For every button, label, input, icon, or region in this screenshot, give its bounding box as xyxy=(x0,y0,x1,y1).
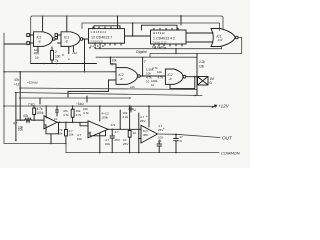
node input junction xyxy=(19,119,21,121)
node gate C out xyxy=(142,75,144,77)
node pins under IC2 xyxy=(154,47,156,49)
op-amp T2 xyxy=(88,121,108,138)
wire gate C input long xyxy=(4,71,111,73)
component x129 xyxy=(128,106,131,153)
resistor R input zigzag xyxy=(25,118,32,122)
wire gate B out drop to gate C xyxy=(84,39,86,72)
op-amp T1 xyxy=(44,116,57,129)
node bias T1 xyxy=(33,119,35,121)
wire rail +12V xyxy=(4,105,215,107)
wire second top rail xyxy=(82,23,220,31)
wire tap above gate C xyxy=(142,57,144,76)
wire left border xyxy=(4,33,219,153)
wire left box edge bottom xyxy=(31,63,97,65)
wire gate D out xyxy=(186,76,197,78)
wire gate A input from border xyxy=(4,43,27,45)
wire T1 supply xyxy=(45,106,47,118)
component hanger 7k under rail xyxy=(39,98,41,104)
wire gate C out xyxy=(140,75,165,77)
wire rail B xyxy=(15,93,202,96)
wire rail C xyxy=(19,97,130,99)
node T3 out xyxy=(175,134,177,136)
wire T2 bottom leg xyxy=(99,134,101,153)
gate D IC2-b xyxy=(165,69,185,84)
wire rail A xyxy=(20,88,197,90)
node gate D out xyxy=(194,76,196,78)
resistor chain x120 xyxy=(119,110,121,129)
node T1 feedback xyxy=(58,133,60,135)
node cap output bottom xyxy=(175,152,177,154)
wire tap IC1 xyxy=(117,16,119,29)
node mid left junctions xyxy=(43,63,45,65)
wire T3 out xyxy=(158,134,221,138)
node resistor under T1 xyxy=(65,122,67,124)
wire +12V arrow xyxy=(212,105,217,108)
node T1 supply xyxy=(45,105,47,107)
wire tap rail2 to IC wire xyxy=(132,23,134,36)
IC U2 CD4046 xyxy=(151,28,187,46)
wire T1 ground leg xyxy=(50,134,52,144)
crystal Y1 xyxy=(198,77,209,86)
wire left vertical x16 xyxy=(15,93,17,141)
wire left vertical x20 xyxy=(19,72,21,120)
wire T1 out xyxy=(57,122,88,126)
gate C IC2-a xyxy=(111,68,140,85)
capacitor T3 bypass xyxy=(157,140,161,153)
wire gate D feedback bottom xyxy=(170,77,195,89)
node T1 out xyxy=(59,122,61,124)
wire T3 supply xyxy=(148,106,150,127)
wire rail A corner xyxy=(196,90,198,96)
IC U1 CD4013 xyxy=(89,27,125,45)
wire connector x176 xyxy=(175,49,177,54)
node pins under IC1 xyxy=(89,47,91,49)
resistor bias T1 xyxy=(33,106,36,120)
node gate C input xyxy=(3,71,5,73)
wire T3 input vertical xyxy=(138,113,140,153)
wire top rail xyxy=(31,16,223,64)
wire gate A lower input drop xyxy=(37,46,39,52)
wire gate B out xyxy=(83,38,89,40)
wire tap gate A xyxy=(42,16,44,31)
wire mid rail xyxy=(96,56,197,58)
resistor under T1 right xyxy=(65,122,68,143)
component hanger 1k under rail xyxy=(86,96,88,102)
resistor R mid-left vertical xyxy=(51,47,54,64)
gate E IC1-c xyxy=(207,29,238,47)
wire tap gate B xyxy=(66,16,68,31)
wire loop above IC1 xyxy=(94,26,120,29)
wire right vertical xyxy=(196,54,198,96)
wire loop above IC2 xyxy=(142,25,178,30)
wire T2 out cap leg xyxy=(110,129,114,152)
resistor left hang x57 xyxy=(56,106,59,116)
wire gate C lower loop xyxy=(68,80,111,97)
node rail junctions xyxy=(19,87,21,89)
resistor T2 bias from rail xyxy=(71,106,74,122)
wire T2 feedback loop xyxy=(88,130,106,136)
node T2 out xyxy=(111,129,113,131)
wire IC1 to IC2 xyxy=(125,35,151,37)
gate B IC1-b xyxy=(55,32,83,47)
node T1 ground leg xyxy=(50,143,52,145)
gate A IC1-a xyxy=(27,32,56,47)
wire tap IC2 xyxy=(180,16,182,25)
node T2 bias xyxy=(72,105,74,107)
node T2 supply xyxy=(99,105,101,107)
wire gate E output loop xyxy=(150,38,242,58)
capacitor C output xyxy=(174,134,179,152)
wire gate E inputs from IC2 xyxy=(186,33,207,42)
wire gate E lower input L xyxy=(95,46,221,49)
node mid rail tap xyxy=(110,56,112,58)
wire T3 lower input stub xyxy=(139,138,141,140)
wire T1 feedback loop xyxy=(44,122,59,134)
wire gate B bottom drops xyxy=(69,46,74,53)
wire mid rail drop to gate C xyxy=(110,57,116,67)
node gate A out xyxy=(56,38,58,40)
capacitor hanger under +12V rail xyxy=(129,106,133,112)
node x129 xyxy=(129,105,131,107)
wire gate A to gate B xyxy=(55,35,57,39)
node top rail IC2 tap xyxy=(180,15,182,17)
wire T2 supply xyxy=(99,106,101,121)
wire input line to T1 xyxy=(16,119,44,121)
op-amp T3 xyxy=(141,125,158,143)
node x16 bottom xyxy=(15,140,17,142)
wire T2 out xyxy=(108,128,141,130)
